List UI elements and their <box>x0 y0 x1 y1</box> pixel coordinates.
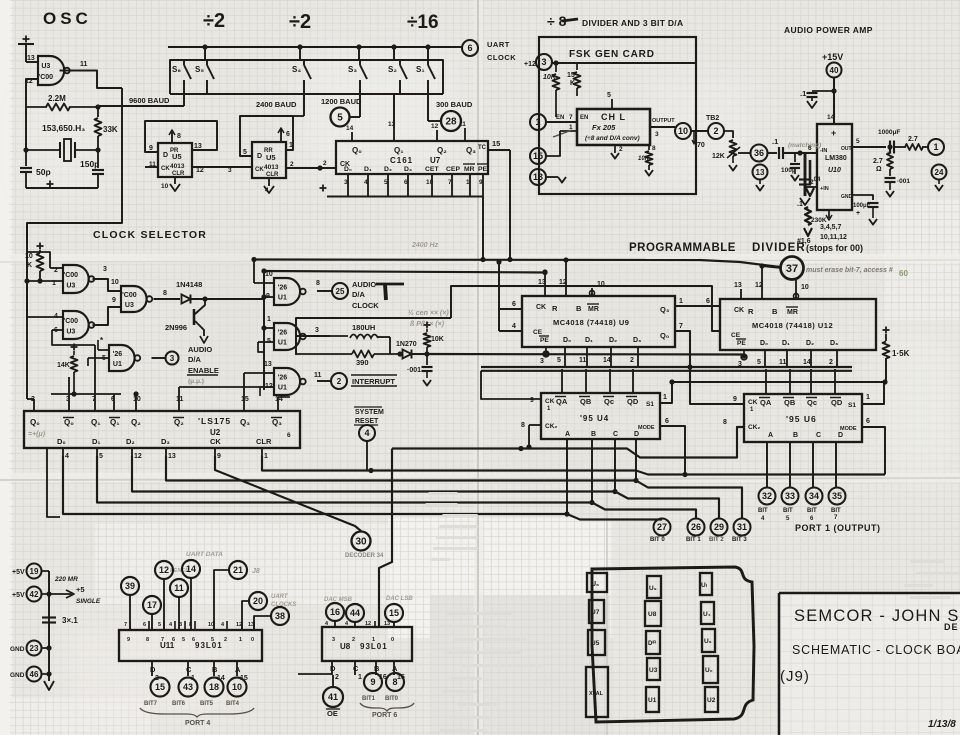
svg-text:'95 U6: '95 U6 <box>786 414 817 424</box>
circle 8 <box>386 673 404 691</box>
ff U5b gnd <box>268 178 270 186</box>
svg-text:+IN: +IN <box>820 186 829 192</box>
u6 bottom wires <box>766 442 768 488</box>
svg-text:2: 2 <box>713 126 718 136</box>
svg-text:U1: U1 <box>113 361 122 368</box>
svg-text:D₂: D₂ <box>609 337 617 344</box>
u12 d stubs <box>764 350 766 366</box>
svg-text:2: 2 <box>337 377 342 386</box>
svg-text:3: 3 <box>170 354 175 363</box>
svg-text:93L01: 93L01 <box>360 642 388 651</box>
shift reg U4 box <box>541 393 660 439</box>
u8 left wire <box>298 673 332 675</box>
svg-text:D₂: D₂ <box>806 340 814 347</box>
svg-text:14: 14 <box>803 359 811 366</box>
svg-text:UART: UART <box>487 40 510 49</box>
svg-text:13: 13 <box>756 168 765 177</box>
svg-text:BIT: BIT <box>758 508 768 514</box>
ink mark T <box>376 283 404 286</box>
svg-text:6: 6 <box>866 418 870 425</box>
wire 9600 h <box>98 105 122 107</box>
svg-text:S₂: S₂ <box>388 65 397 74</box>
inductor 180UH <box>295 336 297 355</box>
svg-text:8: 8 <box>189 622 192 628</box>
svg-text:0: 0 <box>251 637 254 643</box>
svg-text:1N4148: 1N4148 <box>176 280 202 289</box>
circle 25 audio clock <box>332 283 348 299</box>
svg-text:GND: GND <box>10 672 25 679</box>
svg-text:33: 33 <box>785 491 795 501</box>
switch bottoms <box>183 80 185 94</box>
svg-text:U5: U5 <box>266 153 276 162</box>
svg-text:12: 12 <box>134 453 142 460</box>
circle 23 <box>27 641 42 656</box>
svg-text:U1: U1 <box>278 340 287 347</box>
svg-text:10: 10 <box>111 279 119 286</box>
svg-text:(J9): (J9) <box>780 668 810 685</box>
svg-text:PORT 6: PORT 6 <box>372 712 397 719</box>
svg-text:D: D <box>838 432 843 439</box>
nand U1d enable <box>109 345 135 371</box>
cap 150p <box>97 150 99 168</box>
register LS175 U2 box <box>24 411 300 448</box>
svg-text:10K: 10K <box>543 74 557 81</box>
svg-text:4: 4 <box>265 187 269 194</box>
svg-text:DE: DE <box>944 622 959 632</box>
svg-text:D₁: D₁ <box>92 437 101 446</box>
u9 q3 to u12 ck <box>675 305 720 307</box>
svg-text:QD: QD <box>627 397 639 406</box>
svg-text:OSC: OSC <box>43 9 92 28</box>
u4 q stubs <box>561 369 563 393</box>
svg-text:7: 7 <box>569 114 573 121</box>
svg-text:4013: 4013 <box>170 163 185 170</box>
top bus wire <box>168 46 456 48</box>
svg-text:BIT: BIT <box>807 508 817 514</box>
svg-text:CE: CE <box>533 329 543 336</box>
svg-text:C: C <box>816 432 821 439</box>
circle 21 <box>229 561 247 579</box>
svg-text:33K: 33K <box>103 125 118 134</box>
svg-text:12: 12 <box>236 622 242 628</box>
svg-text:CK: CK <box>748 399 758 406</box>
svg-text:U3: U3 <box>649 667 658 674</box>
svg-text:must erase bit-7, access #: must erase bit-7, access # <box>806 267 893 274</box>
circle 13 fsk <box>530 169 546 185</box>
svg-text:EN: EN <box>580 115 588 121</box>
svg-text:S1: S1 <box>848 402 856 409</box>
u4 s1 mode <box>660 382 672 403</box>
crystal Y1 <box>25 107 27 150</box>
svg-text:43: 43 <box>183 682 193 692</box>
ff U5a clk wire <box>145 166 158 168</box>
svg-text:7: 7 <box>161 637 164 643</box>
wires gates to ls175 <box>33 399 35 404</box>
svg-text:1: 1 <box>466 179 470 186</box>
svg-text:31: 31 <box>737 522 747 532</box>
wire osc to selector <box>27 106 122 244</box>
svg-text:0: 0 <box>391 637 394 643</box>
circle 30 <box>352 532 371 551</box>
svg-text:AUDIO: AUDIO <box>188 345 212 354</box>
circle 42 <box>27 587 42 602</box>
layout U4 col3 <box>701 602 714 624</box>
switch frame <box>170 60 443 94</box>
bus L6 d0 y514 <box>63 456 662 520</box>
svg-text:UART DATA: UART DATA <box>186 551 223 558</box>
qbar overlines ls175 <box>63 417 74 419</box>
svg-text:10: 10 <box>133 396 141 403</box>
svg-text:+5V: +5V <box>12 592 25 599</box>
svg-text:390: 390 <box>356 358 369 367</box>
svg-text:2: 2 <box>619 146 623 153</box>
svg-text:'26: '26 <box>278 374 288 381</box>
svg-text:U2: U2 <box>210 428 221 437</box>
ff U5b loop2 <box>293 115 304 117</box>
svg-text:2: 2 <box>829 359 833 366</box>
svg-text:GND: GND <box>10 646 25 653</box>
svg-text:3: 3 <box>540 358 544 365</box>
circle 5 1200 <box>331 108 350 127</box>
svg-text:DIVIDER AND 3 BIT D/A: DIVIDER AND 3 BIT D/A <box>582 18 683 28</box>
svg-text:5: 5 <box>99 453 103 460</box>
circle 24 <box>932 165 947 180</box>
u9 pe stub <box>545 347 547 351</box>
svg-text:PROGRAMMABLE: PROGRAMMABLE <box>629 242 736 254</box>
node xtal <box>23 147 28 152</box>
svg-text:÷2: ÷2 <box>289 11 311 33</box>
wire S3 to c5 <box>359 94 361 117</box>
svg-text:180UH: 180UH <box>352 323 375 332</box>
wire c4 drop <box>366 441 368 471</box>
svg-text:5: 5 <box>243 149 247 156</box>
nand U3b inputs <box>27 281 63 317</box>
svg-text:·001: ·001 <box>897 178 910 185</box>
svg-text:'C00: 'C00 <box>64 318 79 325</box>
svg-text:CLOCK: CLOCK <box>487 53 516 62</box>
svg-text:.1: .1 <box>800 89 806 98</box>
svg-text:5: 5 <box>182 637 185 643</box>
svg-text:BIT 1: BIT 1 <box>686 537 701 543</box>
svg-text:12: 12 <box>365 621 371 627</box>
nand U3c inputs <box>93 279 122 291</box>
svg-text:U1: U1 <box>278 385 287 392</box>
svg-text:D₃: D₃ <box>404 166 412 173</box>
svg-text:+15V: +15V <box>822 52 843 62</box>
cap .1 input <box>778 147 780 159</box>
svg-text:11: 11 <box>779 359 787 366</box>
svg-text:U3: U3 <box>66 282 75 289</box>
svg-text:D: D <box>330 664 336 673</box>
ff U5a gnd <box>174 177 176 184</box>
gate column vertical <box>263 271 265 390</box>
osc rail down <box>26 223 28 281</box>
resistor 10K fsk <box>555 63 557 72</box>
resistor 1.5K right <box>883 329 890 331</box>
svg-text:D₃: D₃ <box>633 337 641 344</box>
circle 13 amp <box>753 165 768 180</box>
wire ck fsk <box>560 130 577 132</box>
svg-text:1: 1 <box>372 637 375 643</box>
svg-text:Q₀: Q₀ <box>30 418 40 427</box>
svg-text:7: 7 <box>124 622 127 628</box>
svg-text:U1: U1 <box>278 295 287 302</box>
svg-text:15: 15 <box>567 72 575 79</box>
svg-text:QB: QB <box>580 397 592 406</box>
dark scribble caps <box>804 153 807 196</box>
svg-text:5: 5 <box>158 622 161 628</box>
u9 r b wires up <box>544 272 546 286</box>
svg-text:9600 BAUD: 9600 BAUD <box>129 96 170 105</box>
svg-text:D: D <box>163 152 168 159</box>
svg-text:50p: 50p <box>36 167 51 177</box>
svg-text:C: C <box>186 665 192 674</box>
svg-text:DAC LSB: DAC LSB <box>386 596 413 602</box>
resistor 14K <box>71 346 78 348</box>
counter C161 U7 box <box>336 141 488 174</box>
circle 40 <box>827 63 842 78</box>
svg-text:100μF: 100μF <box>853 203 871 209</box>
brace u11 <box>140 708 254 717</box>
resistor 10K selector <box>37 245 44 247</box>
network wire top <box>296 318 451 336</box>
amp LM380 U10 box <box>817 124 852 210</box>
svg-text:U₄: U₄ <box>703 611 711 618</box>
svg-text:13: 13 <box>248 622 254 628</box>
svg-text:'LS175: 'LS175 <box>198 416 231 426</box>
circle 3 audio enable <box>166 352 179 365</box>
svg-text:MR: MR <box>464 166 475 173</box>
nand U1b <box>274 323 300 350</box>
U1a inputs <box>254 282 274 284</box>
resistor 2.7ohm shunt <box>889 147 891 152</box>
svg-text:1: 1 <box>358 674 362 681</box>
svg-text:D₀: D₀ <box>760 340 768 347</box>
circle 18 <box>205 678 224 697</box>
svg-text:.1: .1 <box>797 201 803 208</box>
svg-text:2: 2 <box>810 179 814 186</box>
svg-text:220 MR: 220 MR <box>54 576 78 583</box>
svg-text:C: C <box>613 431 618 438</box>
layout xtal <box>586 667 608 717</box>
svg-text:PORT 4: PORT 4 <box>185 720 210 727</box>
circle 4 system reset <box>359 425 375 441</box>
svg-text:28: 28 <box>445 117 457 128</box>
svg-text:1: 1 <box>679 298 683 305</box>
svg-text:Q₀: Q₀ <box>660 331 669 340</box>
node osc right <box>95 104 100 109</box>
pencil arrow fsk <box>553 130 572 137</box>
svg-text:1: 1 <box>264 453 268 460</box>
svg-text:9: 9 <box>149 145 153 152</box>
fold bands <box>0 254 960 263</box>
wire ffb to c161 <box>320 167 336 169</box>
u9 top stubs <box>544 286 546 296</box>
svg-text:15: 15 <box>155 682 165 692</box>
wire diode out <box>191 298 213 300</box>
switch S2 <box>399 60 401 65</box>
svg-text:U3: U3 <box>41 63 50 70</box>
svg-text:Q₂: Q₂ <box>174 418 184 427</box>
svg-text:D₁: D₁ <box>364 166 372 173</box>
svg-text:U5: U5 <box>591 640 600 647</box>
svg-text:Q₀: Q₀ <box>352 146 362 155</box>
title block border <box>779 592 960 595</box>
svg-text:UART: UART <box>271 594 289 600</box>
u9 d stubs <box>564 347 566 366</box>
svg-text:FSK GEN CARD: FSK GEN CARD <box>569 49 655 60</box>
svg-text:S₃: S₃ <box>348 65 357 74</box>
switch S6 <box>183 60 185 65</box>
svg-text:3: 3 <box>103 266 107 273</box>
svg-text:D₁: D₁ <box>782 340 790 347</box>
svg-text:+12: +12 <box>524 61 536 68</box>
svg-text:S₄: S₄ <box>292 65 301 74</box>
svg-text:12: 12 <box>431 123 439 130</box>
wire 10 to tb2 <box>691 130 708 132</box>
svg-text:6: 6 <box>808 145 812 152</box>
svg-text:BIT: BIT <box>831 508 841 514</box>
wire 15v down <box>833 78 835 125</box>
svg-text:12: 12 <box>159 565 169 575</box>
svg-text:B: B <box>212 665 218 674</box>
svg-text:SINGLE: SINGLE <box>76 598 101 605</box>
circle 43 <box>179 678 198 697</box>
svg-text:13: 13 <box>533 172 543 182</box>
bus L4 d2 y492 <box>132 456 719 519</box>
circle 10 fsk <box>675 123 691 139</box>
svg-text:1/13/8: 1/13/8 <box>928 719 956 730</box>
svg-text:14: 14 <box>603 357 611 364</box>
wire y382 <box>672 381 885 383</box>
wire S1 to c28 <box>427 94 429 121</box>
svg-text:11: 11 <box>174 583 184 593</box>
svg-text:U₉: U₉ <box>649 585 657 592</box>
svg-text:÷16: ÷16 <box>407 12 439 33</box>
bus L3 d3 y481 <box>166 456 742 519</box>
svg-text:4: 4 <box>512 323 516 330</box>
wire sel out right <box>212 271 264 299</box>
svg-text:2400 BAUD: 2400 BAUD <box>256 100 297 109</box>
wire y259 to 37 <box>699 260 780 267</box>
svg-text:30: 30 <box>355 537 367 548</box>
svg-text:10K: 10K <box>431 336 444 343</box>
svg-text:BIT 0: BIT 0 <box>650 537 665 543</box>
svg-text:13: 13 <box>264 361 272 368</box>
svg-text:SYSTEM: SYSTEM <box>355 409 384 416</box>
svg-text:U3: U3 <box>66 328 75 335</box>
svg-text:Q₁: Q₁ <box>91 418 101 427</box>
svg-text:5: 5 <box>856 138 860 145</box>
svg-text:1: 1 <box>933 142 938 152</box>
svg-text:MR: MR <box>787 309 798 316</box>
svg-text:TB2: TB2 <box>706 115 719 122</box>
svg-text:U5: U5 <box>172 152 182 161</box>
nand U3b <box>63 311 89 339</box>
svg-text:60: 60 <box>899 269 908 278</box>
amp gnd pin right <box>852 195 873 200</box>
wire ffa to ffb <box>226 166 252 168</box>
nand U1a <box>274 278 300 305</box>
svg-text:A: A <box>768 432 773 439</box>
svg-text:10: 10 <box>161 183 169 190</box>
svg-text:10: 10 <box>265 271 273 278</box>
svg-text:A: A <box>565 431 570 438</box>
svg-text:2N996: 2N996 <box>165 323 187 332</box>
svg-text:(μ.μ.): (μ.μ.) <box>188 378 204 385</box>
svg-text:19: 19 <box>30 567 39 576</box>
svg-text:70: 70 <box>697 142 705 149</box>
circle 16 <box>326 603 344 621</box>
svg-text:3: 3 <box>179 622 182 628</box>
svg-text:Q₁: Q₁ <box>394 146 404 155</box>
svg-text:BIT5: BIT5 <box>200 701 214 707</box>
svg-text:Qc: Qc <box>807 398 817 407</box>
wire en <box>546 121 577 123</box>
wire 13 gnd <box>546 176 558 178</box>
svg-text:K: K <box>570 80 575 87</box>
svg-text:21: 21 <box>233 565 243 575</box>
svg-text:20: 20 <box>253 596 263 606</box>
svg-text:13: 13 <box>27 55 35 62</box>
svg-text:6: 6 <box>192 637 195 643</box>
double bus y366 <box>481 366 852 368</box>
svg-text:3: 3 <box>228 167 232 174</box>
svg-text:24: 24 <box>935 168 944 177</box>
layout U10 col3 <box>703 656 718 683</box>
svg-text:D₀: D₀ <box>57 437 66 446</box>
cap 3x.1 <box>42 616 56 618</box>
wire net right up <box>451 286 720 331</box>
title block paper <box>779 593 960 735</box>
svg-text:B: B <box>576 304 582 313</box>
layout U6 col1 <box>587 573 607 592</box>
ls175 bottom stubs <box>62 448 64 456</box>
svg-text:CLOCK: CLOCK <box>352 301 379 310</box>
wire 14K rail <box>51 393 121 395</box>
svg-text:9: 9 <box>112 297 116 304</box>
svg-text:(÷8 and D/A conv): (÷8 and D/A conv) <box>585 135 640 142</box>
svg-text:8: 8 <box>146 637 149 643</box>
power gnd arrow <box>44 681 54 690</box>
svg-text:U8: U8 <box>340 642 351 651</box>
svg-text:A: A <box>392 664 398 673</box>
svg-text:15: 15 <box>492 139 500 148</box>
svg-text:B: B <box>374 664 380 673</box>
svg-text:44: 44 <box>350 608 360 618</box>
svg-text:BIT4: BIT4 <box>226 701 240 707</box>
svg-text:+: + <box>856 210 860 217</box>
circle 12 <box>155 561 173 579</box>
svg-text:DECODER 34: DECODER 34 <box>345 553 384 559</box>
nand U1d inputs <box>98 349 109 351</box>
svg-text:U7: U7 <box>430 156 441 165</box>
svg-text:MC4018 (74418) U12: MC4018 (74418) U12 <box>752 321 833 330</box>
svg-text:D₀: D₀ <box>344 166 352 173</box>
layout U5 col1 <box>588 630 605 655</box>
wire plus to nand <box>25 44 27 62</box>
bus top y271 <box>264 271 546 273</box>
svg-text:9: 9 <box>733 396 737 403</box>
svg-text:6: 6 <box>512 301 516 308</box>
svg-text:5: 5 <box>557 357 561 364</box>
svg-text:GND: GND <box>841 194 853 200</box>
svg-text:Q₃: Q₃ <box>240 418 250 427</box>
circle 3 +12 <box>536 54 552 70</box>
svg-text:3: 3 <box>332 637 335 643</box>
svg-text:Q₀: Q₀ <box>64 418 74 427</box>
circle 1 out <box>928 139 944 155</box>
